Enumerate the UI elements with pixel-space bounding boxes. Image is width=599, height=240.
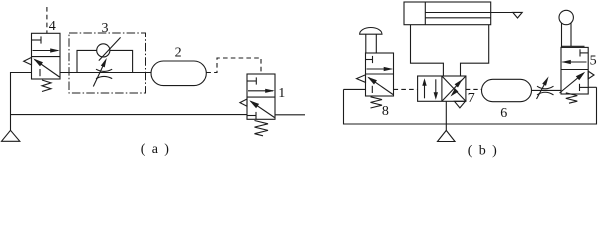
exhaust triangle of valve 4 <box>24 57 32 65</box>
wires: valve 7 to cylinder ports <box>411 25 489 76</box>
pilot line (dashed) reservoir 2 to valve 1 <box>206 58 261 74</box>
valve 8 (3/2 push-button, spring return) <box>357 53 394 96</box>
striker at piston rod end <box>513 12 522 18</box>
valve 4 (3/2 pilot-operated, spring return) <box>24 33 60 79</box>
exhaust triangle of valve 5 <box>588 71 594 79</box>
bottom box diagonal arrow <box>560 73 584 93</box>
wire: source riser to valve 4 left port <box>11 73 32 131</box>
exhaust triangle of valve 1 <box>240 99 247 106</box>
svg-text:( a ): ( a ) <box>141 142 169 157</box>
air reservoir 2 (stadium shape) <box>151 61 206 86</box>
svg-text:2: 2 <box>175 46 182 61</box>
spring of valve 5 <box>566 93 578 103</box>
svg-text:3: 3 <box>102 21 109 36</box>
check valve C (circle with seat line) <box>97 37 121 60</box>
wire: reservoir 6 to throttle to valve 5 <box>532 89 562 91</box>
svg-text:5: 5 <box>590 53 597 68</box>
pilot line (dashed) valve 7 to reservoir 6 <box>466 88 482 90</box>
pneumatic source S2 (triangle, apex up) <box>438 130 456 141</box>
valve 1 (3/2 pilot-operated, spring return) <box>240 74 275 119</box>
valve 5 (3/2 roller lever, spring return) <box>560 47 595 94</box>
air reservoir 6 (stadium shape) <box>482 79 532 101</box>
wire: supply bus of figure (b) <box>344 87 597 124</box>
top box blocked port <box>247 80 256 82</box>
component 3 enclosure (chain-line box) <box>69 33 146 93</box>
exhaust triangle under valve 7 right box <box>455 101 466 108</box>
wire: valve 8 left port to bus <box>344 88 366 90</box>
svg-text:6: 6 <box>500 106 507 121</box>
top box blocked port <box>366 59 373 61</box>
spring of valve 1 <box>255 121 269 136</box>
svg-text:8: 8 <box>382 104 389 119</box>
spring of valve 8 <box>371 97 383 108</box>
pneumatic source S1 (triangle, apex up) <box>2 130 20 141</box>
bottom box blocked port <box>39 69 41 76</box>
pilot line (dashed) valve 8 to valve 7 <box>394 88 418 90</box>
check valve branch loop of component 3 <box>77 50 133 72</box>
top box flow arrow <box>248 90 273 92</box>
svg-text:1: 1 <box>278 86 285 101</box>
wire: valve 7 supply drop <box>445 101 447 130</box>
valve 7 (4/2 double pilot impulse valve) <box>418 76 466 108</box>
wire: main line valve4 - oval 2 <box>60 72 151 74</box>
wire: valve 1 outlet <box>275 114 305 116</box>
bottom box diagonal arrow <box>369 78 394 95</box>
exhaust triangle of valve 8 <box>357 75 366 83</box>
push button of valve 8 (mushroom) <box>360 28 382 53</box>
wire: valve 5 right port to bus <box>588 86 596 88</box>
pilot line (dashed) to valve 4 <box>46 7 48 33</box>
left box down arrow <box>435 79 437 97</box>
svg-text:( b ): ( b ) <box>468 144 497 158</box>
wire: supply bus of figure (a) <box>11 114 248 116</box>
svg-text:7: 7 <box>468 91 475 106</box>
bottom box blocked port <box>579 84 581 91</box>
top box flow arrow <box>367 68 392 70</box>
top box blocked port <box>579 49 581 56</box>
svg-text:4: 4 <box>49 19 56 34</box>
throttle valve T (arcs + adjustment arrow) <box>537 76 554 99</box>
bottom box diagonal arrow <box>251 101 275 117</box>
left box up arrow <box>424 81 426 99</box>
bottom box blocked port <box>371 86 373 93</box>
bottom box diagonal arrow <box>35 60 60 78</box>
top box blocked port <box>32 39 42 41</box>
throttle valve of component 3 (arcs + adjustment arrow) <box>93 58 112 87</box>
right box crossed flow arrows <box>442 76 466 101</box>
top box flow arrow <box>33 50 59 52</box>
top box flow arrow (pointing left) <box>563 61 587 63</box>
spring of valve 4 <box>42 80 51 92</box>
cylinder (double-acting) <box>404 2 513 25</box>
roller lever of valve 5 <box>559 10 585 47</box>
bottom box blocked port <box>247 115 256 117</box>
